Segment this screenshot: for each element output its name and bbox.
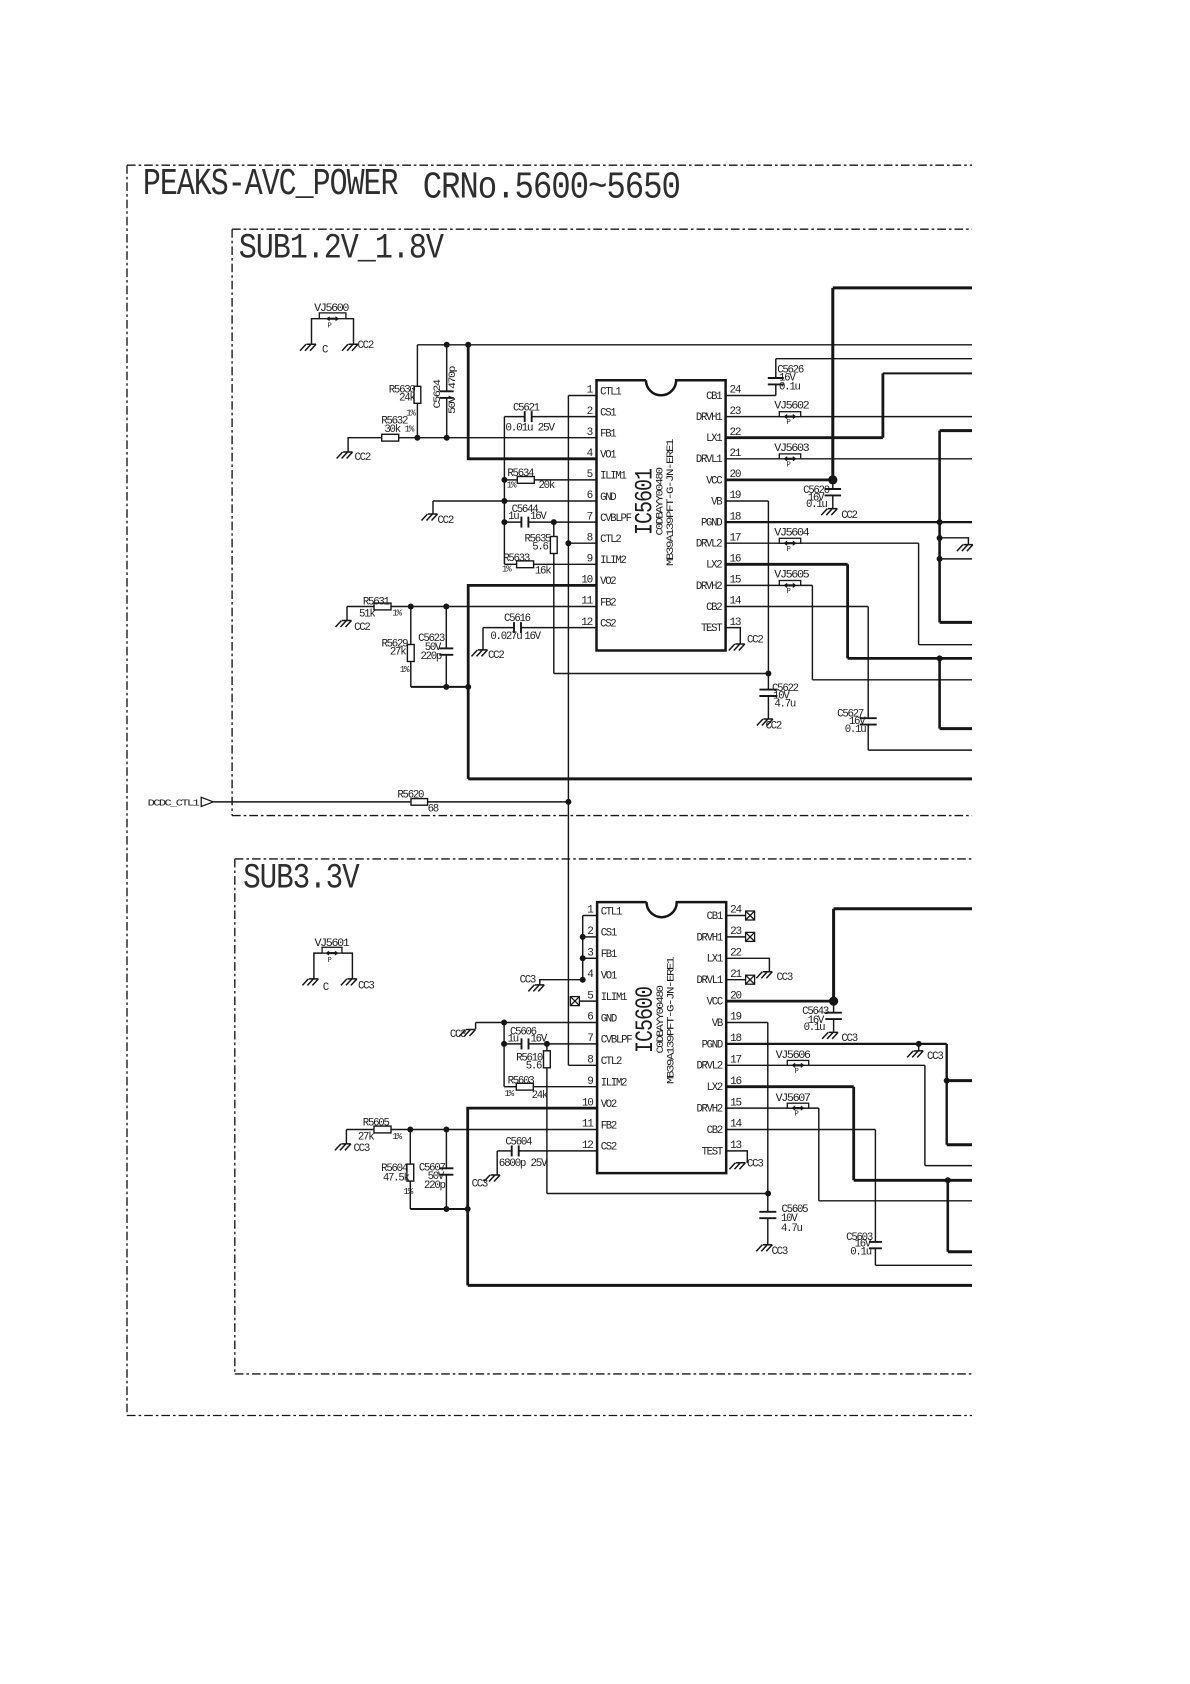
svg-text:C: C xyxy=(323,982,329,994)
svg-text:CTL1: CTL1 xyxy=(600,386,621,398)
svg-text:VJ5601: VJ5601 xyxy=(315,938,350,950)
wire VO1 to ground xyxy=(540,980,583,985)
svg-text:C5604: C5604 xyxy=(505,1137,532,1149)
node dots on FB2 (IC5600) xyxy=(407,1127,449,1133)
svg-text:R5605: R5605 xyxy=(363,1118,390,1130)
svg-text:CC3: CC3 xyxy=(450,1029,466,1041)
svg-text:0.1u: 0.1u xyxy=(804,1022,825,1034)
resistor R5620 xyxy=(397,789,568,815)
node dot right bus mid tap xyxy=(937,556,943,562)
svg-text:CRNo.5600~5650: CRNo.5600~5650 xyxy=(423,167,680,210)
svg-text:CC2: CC2 xyxy=(747,635,763,647)
wire GND pin6 to ground xyxy=(433,501,597,514)
svg-text:51k: 51k xyxy=(359,608,375,620)
IC U-IC5601 MB39A139PFT xyxy=(581,380,742,650)
node dot LX2/right (IC5600) xyxy=(945,1177,951,1183)
jumper VJ5602 xyxy=(774,401,809,428)
svg-text:ILIM2: ILIM2 xyxy=(601,1078,627,1090)
wire VO2 bottom rail xyxy=(468,777,972,780)
wire LX2 thick xyxy=(726,564,972,658)
svg-text:CC3: CC3 xyxy=(772,1246,788,1258)
svg-text:CTL2: CTL2 xyxy=(601,1056,622,1068)
svg-text:12: 12 xyxy=(582,1140,593,1152)
wire VJ5600 left leg xyxy=(312,319,320,345)
svg-text:DRVH1: DRVH1 xyxy=(696,412,722,424)
svg-text:VJ5603: VJ5603 xyxy=(774,443,809,455)
svg-text:LX2: LX2 xyxy=(706,560,722,572)
svg-text:10: 10 xyxy=(581,575,592,587)
svg-text:220p: 220p xyxy=(424,1180,445,1192)
svg-text:CC2: CC2 xyxy=(766,721,782,733)
wire R5631 to ground xyxy=(346,607,348,621)
jumper VJ5603 xyxy=(774,443,809,470)
svg-text:CC2: CC2 xyxy=(358,340,374,352)
svg-text:FB2: FB2 xyxy=(601,1120,617,1132)
node dot C5624/FB1 xyxy=(444,435,450,441)
node dots tie bus xyxy=(580,934,586,983)
node dot DCDC_CTL1/bus xyxy=(565,799,571,805)
wire FB1 xyxy=(398,437,596,439)
svg-text:CB1: CB1 xyxy=(707,911,723,923)
capacitor C5604 xyxy=(497,1137,597,1170)
svg-text:ILIM2: ILIM2 xyxy=(600,555,626,567)
ground CC2 (C5622) xyxy=(757,719,782,733)
svg-text:VO2: VO2 xyxy=(600,576,616,588)
svg-text:PGND: PGND xyxy=(702,1039,723,1051)
svg-text:CC2: CC2 xyxy=(438,515,454,527)
wire DRVL2 (IC5600) xyxy=(726,1065,972,1165)
svg-text:LX2: LX2 xyxy=(707,1082,723,1094)
node dot PGND/right bus xyxy=(937,519,943,525)
wire DRVH1 xyxy=(726,416,972,418)
svg-text:CB2: CB2 xyxy=(707,1125,723,1137)
svg-text:CS1: CS1 xyxy=(601,928,617,940)
wire R5605 to ground xyxy=(345,1130,347,1144)
svg-text:VCC: VCC xyxy=(706,475,722,487)
wire DRVH2 xyxy=(726,585,972,679)
svg-text:2: 2 xyxy=(587,406,593,418)
wire right bus mid tap xyxy=(940,558,972,560)
svg-text:8: 8 xyxy=(587,1055,593,1067)
ground CC2 (C5616) xyxy=(472,650,505,662)
node dot PGND ground tap xyxy=(916,1041,922,1047)
resistor R5634 xyxy=(504,468,596,492)
svg-text:VJ5604: VJ5604 xyxy=(774,527,809,539)
ground (right bus) xyxy=(957,545,973,552)
svg-text:VO2: VO2 xyxy=(601,1099,617,1111)
svg-text:9: 9 xyxy=(587,1076,593,1088)
resistor R5632 xyxy=(381,415,415,441)
svg-text:C: C xyxy=(322,345,328,357)
svg-text:0.1u: 0.1u xyxy=(845,724,866,736)
no-connect ILIM1 pin5 xyxy=(570,997,597,1006)
svg-text:27k: 27k xyxy=(390,647,406,659)
ground CC3 (R5605) xyxy=(335,1143,370,1155)
node dot LX2/right bus xyxy=(937,655,943,661)
wire VJ5601 right leg xyxy=(342,953,353,979)
svg-text:MB39A139PFT-G-JN-ERE1: MB39A139PFT-G-JN-ERE1 xyxy=(665,957,677,1084)
svg-text:C5616: C5616 xyxy=(504,613,531,625)
wire LX1 to ground (IC5600) xyxy=(726,958,769,972)
resistor R5605 xyxy=(358,1118,597,1144)
svg-text:VB: VB xyxy=(712,1018,723,1030)
svg-text:VO1: VO1 xyxy=(600,450,616,462)
svg-text:1u: 1u xyxy=(508,511,519,523)
resistor R5629 xyxy=(381,607,414,687)
wire VCC thick (IC5600) xyxy=(726,909,972,1001)
svg-text:CB1: CB1 xyxy=(706,391,722,403)
wire FB2 xyxy=(347,606,374,608)
wire VO1 riser from top rail xyxy=(468,345,596,459)
svg-text:CC2: CC2 xyxy=(841,510,857,522)
svg-text:VJ5606: VJ5606 xyxy=(776,1050,811,1062)
node dot VCC (IC5600) xyxy=(829,997,838,1006)
capacitor C5626 xyxy=(726,359,972,396)
svg-text:CC3: CC3 xyxy=(520,974,536,986)
wire TEST to ground xyxy=(726,628,741,644)
section box SUB1.2V_1.8V xyxy=(232,229,972,815)
capacitor C5622 xyxy=(759,674,798,720)
svg-text:DRVL2: DRVL2 xyxy=(696,539,722,551)
svg-text:VJ5607: VJ5607 xyxy=(776,1093,811,1105)
wire CTL2 stub (IC5600) xyxy=(568,1064,597,1066)
svg-text:DRVH2: DRVH2 xyxy=(696,581,722,593)
ground CC2 (VJ5600 right) xyxy=(342,340,374,352)
svg-text:30k: 30k xyxy=(384,424,400,436)
svg-text:11: 11 xyxy=(581,596,593,608)
svg-text:TEST: TEST xyxy=(702,1146,723,1158)
svg-text:VCC: VCC xyxy=(707,997,723,1009)
node dot C5606/R5610 xyxy=(544,1041,550,1047)
svg-text:CTL2: CTL2 xyxy=(600,534,621,546)
resistor R5631 xyxy=(359,596,597,620)
ground CC2 (GND pin6) xyxy=(422,514,454,527)
node dot R5634/bus xyxy=(501,477,507,483)
svg-text:CS2: CS2 xyxy=(601,1142,617,1154)
capacitor C5607 xyxy=(419,1130,454,1210)
svg-text:PGND: PGND xyxy=(701,518,722,530)
wire VJ5601 left leg xyxy=(314,953,322,979)
svg-text:6: 6 xyxy=(587,1012,593,1024)
wire R5610 to VB node xyxy=(547,1193,768,1195)
svg-text:CVBLPF: CVBLPF xyxy=(601,1035,633,1047)
node dot CTL2/bus xyxy=(565,540,571,546)
wire VJ5600 right leg xyxy=(346,319,354,345)
ground CC3 (VJ5601 right) xyxy=(341,979,374,993)
svg-text:16V: 16V xyxy=(530,511,547,523)
svg-text:10: 10 xyxy=(582,1097,593,1109)
wire right bus upper xyxy=(940,431,972,623)
wire CB2 (IC5600) xyxy=(726,1130,875,1242)
svg-text:0.027u: 0.027u xyxy=(490,631,522,643)
svg-text:9: 9 xyxy=(587,554,593,566)
jumper VJ5607 xyxy=(776,1093,811,1119)
wire GND pin6 (IC5600) xyxy=(476,1023,597,1030)
svg-text:CC3: CC3 xyxy=(777,972,793,984)
svg-text:C5624: C5624 xyxy=(432,379,443,409)
wire CB2 xyxy=(726,607,869,719)
wire R5632 to ground xyxy=(348,438,382,452)
wire VB (IC5600) xyxy=(726,1023,768,1194)
wire DRVL2 xyxy=(726,543,972,645)
svg-text:CS1: CS1 xyxy=(600,407,616,419)
wire C5616 to ground xyxy=(482,628,484,650)
svg-text:DRVL1: DRVL1 xyxy=(696,975,722,987)
svg-text:5: 5 xyxy=(587,990,593,1002)
node dot VCC xyxy=(828,475,837,484)
svg-text:470p: 470p xyxy=(447,365,458,389)
wire left bus x504 (IC5600) xyxy=(503,1023,505,1087)
svg-text:DRVH1: DRVH1 xyxy=(696,932,722,944)
svg-text:GND: GND xyxy=(601,1013,617,1025)
svg-text:SUB3.3V: SUB3.3V xyxy=(243,859,360,899)
svg-text:DRVL2: DRVL2 xyxy=(696,1061,722,1073)
svg-text:5.6: 5.6 xyxy=(526,1060,542,1072)
jumper VJ5606 xyxy=(776,1050,811,1076)
svg-text:VJ5600: VJ5600 xyxy=(314,303,349,315)
svg-text:CB2: CB2 xyxy=(706,602,722,614)
wire CTL1/CS1/FB1/VO1 tie bus xyxy=(583,916,597,980)
jumper VJ5604 xyxy=(774,527,809,554)
wire LX2 right bus down thick xyxy=(948,1180,972,1251)
svg-text:3: 3 xyxy=(587,427,593,439)
ground CC3 (LX1) xyxy=(756,972,793,984)
ground CC3 (VO1) xyxy=(520,974,545,991)
svg-text:4.7u: 4.7u xyxy=(774,699,795,711)
wire right bus tap thick xyxy=(947,1079,972,1082)
svg-text:16k: 16k xyxy=(535,565,551,577)
svg-text:8: 8 xyxy=(587,532,593,544)
node dot VB/C5605 xyxy=(765,1191,771,1197)
svg-text:27k: 27k xyxy=(358,1131,374,1143)
no-connect DRVL1 pin21 xyxy=(726,975,754,984)
wire DRVL1 xyxy=(726,458,972,460)
svg-text:DRVH2: DRVH2 xyxy=(696,1104,722,1116)
section box SUB3.3V xyxy=(235,859,972,1374)
svg-text:FB2: FB2 xyxy=(600,597,616,609)
wire PGND xyxy=(726,521,972,523)
capacitor C5643 xyxy=(802,1001,842,1034)
wire VO2 bottom rail (IC5600) xyxy=(468,1284,972,1287)
wire right bus lower xyxy=(940,658,972,728)
svg-text:16V: 16V xyxy=(524,631,541,643)
svg-text:CC3: CC3 xyxy=(472,1179,488,1191)
svg-text:SUB1.2V_1.8V: SUB1.2V_1.8V xyxy=(239,229,444,269)
node dots on FB2 xyxy=(408,604,450,610)
svg-text:VJ5605: VJ5605 xyxy=(774,570,809,582)
capacitor C5623 xyxy=(418,607,453,687)
wire DRVH2 (IC5600) xyxy=(726,1108,972,1201)
capacitor C5627 xyxy=(837,708,972,750)
svg-text:68: 68 xyxy=(428,803,439,815)
svg-text:0.1u: 0.1u xyxy=(850,1246,871,1258)
ground CC2 (C5620) xyxy=(821,509,857,522)
wire DCDC_CTL1 xyxy=(213,801,411,803)
wire VO2 thick xyxy=(468,585,596,779)
svg-text:6800p 25V: 6800p 25V xyxy=(499,1158,548,1170)
svg-text:LX1: LX1 xyxy=(707,954,723,966)
svg-text:47.5k: 47.5k xyxy=(383,1173,410,1185)
capacitor C5621 xyxy=(504,403,596,435)
svg-text:CTL1: CTL1 xyxy=(601,906,622,918)
node dots bottom cluster xyxy=(443,684,471,690)
svg-text:C5621: C5621 xyxy=(513,403,540,415)
node dot right bus ground tap xyxy=(937,535,943,541)
node dot GND/bus xyxy=(501,498,507,504)
svg-text:1u: 1u xyxy=(508,1034,519,1046)
svg-text:R5631: R5631 xyxy=(363,596,390,608)
svg-text:VB: VB xyxy=(711,496,722,508)
no-connect CB1 pin24 xyxy=(726,911,754,920)
ground CC2 (TEST) xyxy=(729,635,764,651)
ground C (VJ5601 left) xyxy=(302,979,328,994)
node dot C5644/R5635 xyxy=(551,519,557,525)
ground CC3 (C5604) xyxy=(472,1175,500,1191)
svg-text:CS2: CS2 xyxy=(600,618,616,630)
svg-text:3: 3 xyxy=(587,948,593,960)
wire R5635 to VB node xyxy=(554,673,769,675)
wire PGND (IC5600) xyxy=(726,1044,947,1145)
svg-text:24k: 24k xyxy=(532,1090,548,1102)
ground CC3 (PGND) xyxy=(907,1044,943,1063)
wire bottom of R5629/C5623 cluster xyxy=(411,686,468,688)
resistor R5604 xyxy=(381,1130,414,1210)
ground CC2 (R5632) xyxy=(337,452,371,464)
svg-text:R5603: R5603 xyxy=(508,1075,535,1087)
wire FB2 (IC5600) xyxy=(346,1129,374,1131)
wire DCDC_CTL1 bus xyxy=(568,396,596,1066)
wire VCC thick xyxy=(726,288,972,480)
svg-text:2: 2 xyxy=(587,926,593,938)
node dot C5644/bus xyxy=(501,519,507,525)
svg-text:CC2: CC2 xyxy=(488,650,504,662)
jumper VJ5601 xyxy=(315,938,350,965)
capacitor C5605 xyxy=(759,1194,808,1245)
port DCDC_CTL1 xyxy=(148,797,214,808)
svg-text:VO1: VO1 xyxy=(601,971,617,983)
wire ground tap xyxy=(940,538,969,545)
ground CC3 (GND pin6) xyxy=(450,1029,476,1041)
wire LX2 thick (IC5600) xyxy=(726,1087,972,1181)
node dot right bus tap (IC5600) xyxy=(944,1078,950,1084)
svg-text:MB39A139PFT-G-JN-ERE1: MB39A139PFT-G-JN-ERE1 xyxy=(665,439,677,566)
svg-text:220p: 220p xyxy=(420,651,441,663)
svg-text:R5634: R5634 xyxy=(507,468,534,480)
svg-text:TEST: TEST xyxy=(701,623,722,635)
svg-text:CVBLPF: CVBLPF xyxy=(600,513,632,525)
capacitor C5606 xyxy=(504,1026,597,1049)
svg-text:DRVL1: DRVL1 xyxy=(696,454,722,466)
ground C (VJ5600 left) xyxy=(300,344,328,356)
svg-text:FB1: FB1 xyxy=(600,429,616,441)
svg-text:CC3: CC3 xyxy=(358,981,374,993)
resistor R5603 xyxy=(504,1075,597,1102)
svg-text:11: 11 xyxy=(582,1119,594,1131)
capacitor C5624 xyxy=(432,345,458,438)
node dots bottom cluster (IC5600) xyxy=(443,1206,470,1212)
wire TEST to ground (IC5600) xyxy=(726,1151,747,1163)
resistor R5635 xyxy=(524,522,557,673)
wire top supply rail xyxy=(417,344,972,346)
svg-text:0.1u: 0.1u xyxy=(806,499,827,511)
svg-text:0.01u 25V: 0.01u 25V xyxy=(505,422,555,434)
svg-text:7: 7 xyxy=(587,1033,593,1045)
ground CC2 (R5631) xyxy=(336,621,371,634)
node dot R5630/FB1 xyxy=(414,435,420,441)
svg-text:ILIM1: ILIM1 xyxy=(600,471,626,483)
ground CC3 (C5643) xyxy=(822,1032,858,1045)
node dot GND/bus2 xyxy=(501,1020,507,1026)
svg-text:CC3: CC3 xyxy=(747,1159,763,1171)
svg-text:4.7u: 4.7u xyxy=(781,1223,802,1235)
svg-text:FB1: FB1 xyxy=(601,949,617,961)
IC U-IC5600 MB39A139PFT xyxy=(582,902,743,1173)
node dot VB/C5622 xyxy=(765,671,771,677)
capacitor C5644 xyxy=(504,504,596,527)
svg-text:24k: 24k xyxy=(399,393,415,405)
svg-text:R5620: R5620 xyxy=(397,789,424,801)
svg-text:0.1u: 0.1u xyxy=(779,381,800,393)
svg-text:5: 5 xyxy=(587,469,593,481)
svg-text:6: 6 xyxy=(587,490,593,502)
capacitor C5616 xyxy=(483,613,597,643)
no-connect DRVH1 pin23 xyxy=(726,932,754,941)
wire VO2 thick (IC5600) xyxy=(468,1108,597,1285)
svg-text:50V: 50V xyxy=(447,395,458,414)
svg-text:PEAKS-AVC_POWER: PEAKS-AVC_POWER xyxy=(143,163,398,206)
resistor R5630 xyxy=(389,345,421,438)
junction dots on top rail xyxy=(444,342,472,348)
svg-text:5.6: 5.6 xyxy=(532,542,548,554)
jumper VJ5600 xyxy=(314,303,349,331)
capacitor C5620 xyxy=(803,480,841,511)
jumper VJ5605 xyxy=(774,570,809,597)
svg-text:VJ5602: VJ5602 xyxy=(774,401,809,413)
svg-text:CC3: CC3 xyxy=(927,1051,943,1063)
svg-text:20k: 20k xyxy=(539,480,555,492)
resistor R5633 xyxy=(502,553,597,577)
svg-text:DCDC_CTL1: DCDC_CTL1 xyxy=(148,797,201,808)
svg-text:ILIM1: ILIM1 xyxy=(601,992,627,1004)
ground CC3 (C5605) xyxy=(756,1245,788,1258)
wire C5604 to ground xyxy=(496,1151,498,1175)
svg-text:12: 12 xyxy=(581,617,592,629)
svg-text:CC2: CC2 xyxy=(354,622,370,634)
svg-text:CC3: CC3 xyxy=(354,1143,370,1155)
wire right bus bottom thick xyxy=(947,1143,972,1146)
resistor R5610 xyxy=(516,1044,550,1194)
node dot C5606/bus2 xyxy=(501,1041,507,1047)
wire LX1 thick xyxy=(726,373,972,437)
wire left bus x504 xyxy=(503,417,505,565)
svg-text:GND: GND xyxy=(600,492,616,504)
svg-text:7: 7 xyxy=(587,511,593,523)
svg-text:CC2: CC2 xyxy=(355,452,371,464)
ground CC3 (TEST IC5600) xyxy=(729,1159,763,1171)
wire VB xyxy=(726,501,769,674)
wire bottom cluster (IC5600) xyxy=(410,1208,467,1210)
svg-text:LX1: LX1 xyxy=(706,433,722,445)
capacitor C5603 xyxy=(846,1232,972,1266)
